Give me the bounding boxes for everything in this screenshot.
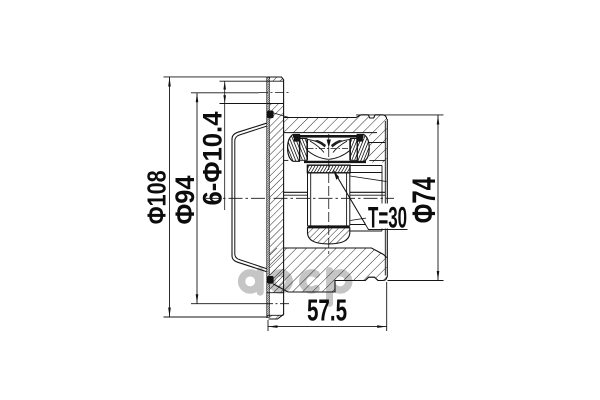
housing inner line right top — [350, 165, 382, 167]
white mask behind T=30 — [366, 204, 409, 229]
spacer band hatched — [307, 165, 350, 173]
housing top inner bore line — [284, 132, 377, 134]
ball wedge dark left — [315, 140, 327, 148]
outer race blob right — [357, 135, 369, 162]
dust cover bell inner wall — [235, 126, 267, 268]
inner race piece right — [350, 139, 357, 161]
svg-text:57.5: 57.5 — [307, 292, 347, 327]
svg-text:6-Φ10.4: 6-Φ10.4 — [198, 112, 228, 206]
dia 94 dimension line — [196, 93, 198, 304]
spline bore lines left — [284, 191, 308, 193]
housing top outline — [284, 115, 387, 119]
chamfer diagonals right interior — [350, 176, 387, 182]
housing inner line right bottom — [350, 224, 382, 226]
spline bore lines right — [350, 191, 386, 193]
inner vertical edge near right face — [381, 166, 383, 232]
ball wedge dark right — [331, 140, 343, 148]
bottom clamp notch outline — [365, 277, 378, 280]
dia 108 dimension line — [169, 77, 171, 317]
vertical bore centerline with arrow — [328, 134, 330, 254]
shaft end dome — [308, 225, 350, 227]
watermark aocp — [242, 271, 349, 304]
housing inner surface segments at cage level — [284, 159, 289, 161]
seal bead bottom — [267, 276, 274, 284]
spline bore walls — [307, 173, 309, 226]
T=30 leader redraw over mask — [334, 171, 408, 230]
housing bottom outline — [273, 248, 387, 292]
weld taper top — [272, 113, 289, 118]
ball center dash line — [308, 148, 351, 150]
inner race edge right — [349, 139, 351, 160]
right face outer edge — [386, 119, 388, 278]
svg-text:Φ108: Φ108 — [141, 170, 171, 224]
housing bottom wall hatched band — [270, 248, 387, 292]
right face inner edge — [384, 121, 386, 276]
flange outline — [266, 77, 283, 319]
6-dia10.4 dimension line — [224, 81, 226, 210]
top bolt hole edges — [220, 80, 284, 82]
flange plate hatched (with bolt holes) — [270, 77, 284, 319]
cover strip (crimped rim of dust cover on flange face) — [266, 77, 270, 318]
small down arrow on centerline — [327, 140, 331, 148]
cage corner block left — [294, 137, 301, 142]
inner race edge left — [306, 139, 308, 160]
cage corner block right — [356, 137, 363, 142]
T=30 leader — [334, 171, 408, 230]
outer race blob left — [288, 135, 300, 162]
ball track curves — [307, 140, 324, 147]
svg-text:Φ74: Φ74 — [406, 177, 442, 223]
main horizontal centerline — [206, 197, 394, 199]
bolt hole centerlines — [259, 92, 290, 94]
dust cover bell outer wall — [232, 123, 267, 271]
housing top wall hatched band — [284, 115, 387, 163]
dia 74 dimension line — [437, 115, 439, 281]
svg-text:Φ94: Φ94 — [170, 176, 200, 225]
housing inner shoulder line top right — [369, 142, 385, 144]
svg-text:T=30: T=30 — [368, 202, 407, 235]
cage bottom thick line — [304, 161, 366, 163]
57.5 dimension line — [268, 326, 387, 328]
seal bead top — [267, 111, 274, 119]
cage top thick line — [293, 135, 364, 138]
bottom bolt hole edges — [267, 292, 284, 294]
inner race piece left — [300, 139, 307, 161]
